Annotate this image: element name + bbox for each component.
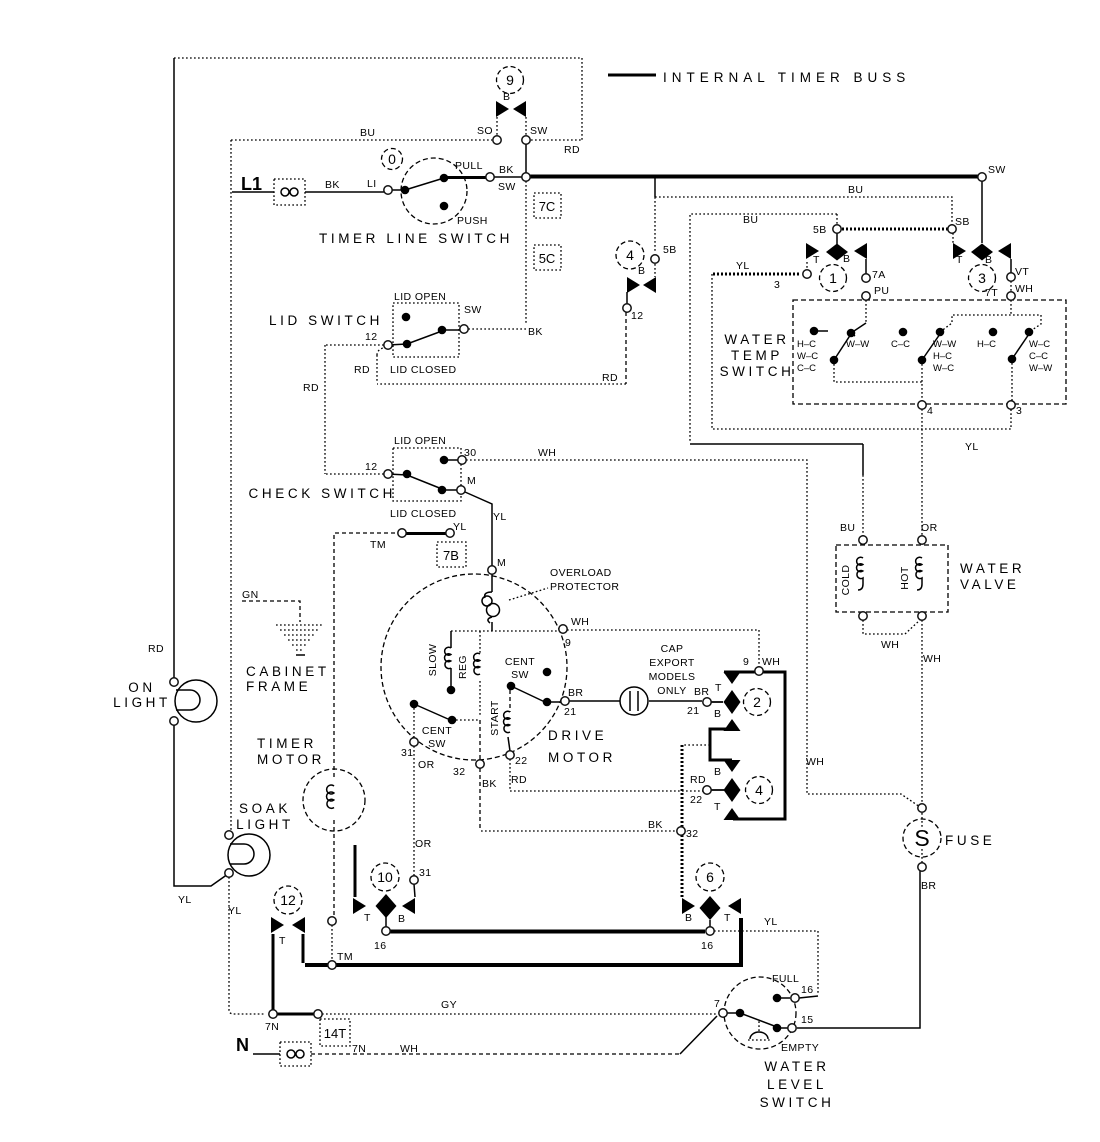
svg-text:21: 21: [687, 705, 699, 717]
svg-text:5C: 5C: [539, 251, 556, 266]
svg-text:SW: SW: [498, 181, 516, 193]
svg-text:YL: YL: [178, 894, 192, 906]
svg-text:BU: BU: [360, 127, 375, 139]
svg-text:LID SWITCH: LID SWITCH: [269, 313, 383, 328]
svg-text:WATER: WATER: [764, 1059, 829, 1074]
svg-text:CHECK SWITCH: CHECK SWITCH: [249, 486, 396, 501]
svg-text:3: 3: [978, 270, 986, 286]
svg-text:BK: BK: [482, 778, 497, 790]
svg-text:B: B: [685, 912, 692, 924]
svg-text:FULL: FULL: [772, 973, 799, 985]
svg-text:7C: 7C: [539, 199, 556, 214]
svg-text:PULL: PULL: [455, 160, 483, 172]
svg-text:YL: YL: [764, 916, 778, 928]
svg-text:SW: SW: [530, 125, 548, 137]
svg-text:12: 12: [365, 331, 377, 343]
svg-text:RD: RD: [511, 774, 527, 786]
svg-text:YL: YL: [228, 905, 242, 917]
svg-text:BR: BR: [568, 687, 583, 699]
svg-text:WH: WH: [571, 616, 589, 628]
svg-text:BK: BK: [325, 179, 340, 191]
svg-text:YL: YL: [453, 521, 467, 533]
svg-text:0: 0: [388, 151, 396, 167]
svg-text:BK: BK: [648, 819, 663, 831]
svg-text:15: 15: [801, 1014, 813, 1026]
svg-text:BU: BU: [840, 522, 855, 534]
svg-text:BU: BU: [848, 184, 863, 196]
svg-text:RD: RD: [148, 643, 164, 655]
svg-text:22: 22: [690, 794, 702, 806]
svg-text:SW: SW: [428, 738, 446, 750]
svg-text:14T: 14T: [324, 1026, 346, 1041]
svg-text:T: T: [724, 912, 731, 924]
svg-text:W–W: W–W: [1029, 363, 1052, 374]
svg-text:RD: RD: [602, 372, 618, 384]
svg-text:OR: OR: [415, 838, 432, 850]
svg-text:BK: BK: [499, 164, 514, 176]
svg-text:RD: RD: [564, 144, 580, 156]
svg-text:W–W: W–W: [933, 339, 956, 350]
svg-text:EMPTY: EMPTY: [781, 1042, 819, 1054]
svg-text:21: 21: [564, 706, 576, 718]
svg-text:VALVE: VALVE: [960, 577, 1020, 592]
svg-text:5B: 5B: [813, 224, 827, 236]
svg-text:C–C: C–C: [891, 339, 910, 350]
svg-text:EXPORT: EXPORT: [649, 657, 695, 669]
svg-text:5B: 5B: [663, 244, 677, 256]
svg-text:7T: 7T: [985, 287, 998, 299]
svg-text:7B: 7B: [443, 548, 459, 563]
svg-text:SW: SW: [988, 164, 1006, 176]
svg-text:32: 32: [686, 828, 698, 840]
svg-text:31: 31: [401, 747, 413, 759]
svg-text:16: 16: [701, 940, 713, 952]
svg-text:YL: YL: [965, 441, 979, 453]
svg-text:W–W: W–W: [846, 339, 869, 350]
svg-text:12: 12: [631, 310, 643, 322]
svg-text:L1: L1: [241, 174, 262, 194]
svg-text:TIMER LINE SWITCH: TIMER LINE SWITCH: [319, 231, 513, 246]
svg-text:OR: OR: [921, 522, 938, 534]
svg-text:DRIVE: DRIVE: [548, 728, 607, 743]
svg-text:OVERLOAD: OVERLOAD: [550, 567, 612, 579]
svg-text:9: 9: [565, 637, 571, 649]
svg-text:RD: RD: [690, 774, 706, 786]
svg-text:9: 9: [743, 656, 749, 668]
svg-text:FUSE: FUSE: [945, 833, 995, 848]
svg-text:CABINET: CABINET: [246, 664, 330, 679]
svg-text:LIGHT: LIGHT: [236, 817, 294, 832]
svg-text:SB: SB: [955, 216, 970, 228]
svg-text:START: START: [489, 700, 501, 736]
svg-text:MODELS: MODELS: [649, 671, 696, 683]
svg-text:OR: OR: [418, 759, 435, 771]
svg-text:GN: GN: [242, 589, 259, 601]
svg-text:LID CLOSED: LID CLOSED: [390, 508, 456, 520]
svg-text:WATER: WATER: [960, 561, 1025, 576]
svg-text:B: B: [843, 253, 850, 265]
svg-text:LID CLOSED: LID CLOSED: [390, 364, 456, 376]
svg-text:SO: SO: [477, 125, 493, 137]
svg-text:6: 6: [706, 869, 714, 885]
svg-text:WH: WH: [400, 1043, 418, 1055]
svg-text:HOT: HOT: [899, 566, 911, 590]
svg-text:TIMER: TIMER: [257, 736, 317, 751]
svg-text:WH: WH: [881, 639, 899, 651]
svg-text:S: S: [914, 825, 929, 851]
svg-text:C–C: C–C: [797, 363, 816, 374]
svg-text:SWITCH: SWITCH: [760, 1095, 835, 1110]
svg-text:T: T: [956, 254, 963, 266]
svg-text:M: M: [467, 475, 476, 487]
svg-text:W–C: W–C: [797, 351, 818, 362]
svg-text:PROTECTOR: PROTECTOR: [550, 581, 619, 593]
svg-text:T: T: [364, 912, 371, 924]
svg-text:YL: YL: [493, 511, 507, 523]
svg-text:SOAK: SOAK: [239, 801, 291, 816]
svg-text:B: B: [714, 708, 721, 720]
svg-text:T: T: [279, 935, 286, 947]
svg-text:30: 30: [464, 447, 476, 459]
svg-text:LID OPEN: LID OPEN: [394, 291, 446, 303]
svg-text:1: 1: [829, 270, 837, 286]
svg-text:H–C: H–C: [933, 351, 952, 362]
svg-text:MOTOR: MOTOR: [257, 752, 325, 767]
svg-text:PU: PU: [874, 285, 889, 297]
svg-text:MOTOR: MOTOR: [548, 750, 616, 765]
svg-text:BR: BR: [921, 880, 936, 892]
svg-text:W–C: W–C: [1029, 339, 1050, 350]
svg-text:M: M: [497, 557, 506, 569]
svg-text:BK: BK: [528, 326, 543, 338]
svg-text:SW: SW: [464, 304, 482, 316]
svg-text:N: N: [236, 1035, 249, 1055]
svg-text:COLD: COLD: [840, 565, 852, 596]
svg-text:B: B: [398, 913, 405, 925]
svg-text:WH: WH: [1015, 283, 1033, 295]
svg-text:TM: TM: [370, 539, 386, 551]
svg-text:LIGHT: LIGHT: [113, 695, 171, 710]
svg-text:7N: 7N: [352, 1043, 366, 1055]
svg-text:SWITCH: SWITCH: [720, 364, 795, 379]
svg-text:H–C: H–C: [797, 339, 816, 350]
svg-text:TEMP: TEMP: [731, 348, 783, 363]
svg-text:BU: BU: [743, 214, 758, 226]
svg-text:T: T: [714, 801, 721, 813]
svg-text:4: 4: [755, 782, 763, 798]
svg-text:SW: SW: [511, 669, 529, 681]
svg-text:12: 12: [280, 892, 296, 908]
svg-text:BR: BR: [694, 686, 709, 698]
svg-text:PUSH: PUSH: [457, 215, 488, 227]
svg-text:RD: RD: [303, 382, 319, 394]
svg-text:ONLY: ONLY: [657, 685, 686, 697]
svg-text:7: 7: [714, 998, 720, 1010]
svg-text:T: T: [715, 682, 722, 694]
svg-text:REG: REG: [457, 655, 469, 679]
svg-text:WH: WH: [923, 653, 941, 665]
svg-text:INTERNAL TIMER BUSS: INTERNAL TIMER BUSS: [663, 70, 910, 85]
svg-text:ON: ON: [128, 680, 155, 695]
svg-text:CENT: CENT: [422, 725, 452, 737]
svg-text:10: 10: [377, 869, 393, 885]
svg-text:LEVEL: LEVEL: [767, 1077, 827, 1092]
svg-text:TM: TM: [337, 951, 353, 963]
svg-text:RD: RD: [354, 364, 370, 376]
svg-text:3: 3: [774, 279, 780, 291]
svg-text:SLOW: SLOW: [427, 644, 439, 677]
svg-text:9: 9: [506, 72, 514, 88]
svg-text:CAP: CAP: [661, 643, 684, 655]
svg-text:H–C: H–C: [977, 339, 996, 350]
svg-text:16: 16: [801, 984, 813, 996]
svg-text:VT: VT: [1015, 266, 1029, 278]
svg-text:31: 31: [419, 867, 431, 879]
svg-text:B: B: [985, 254, 992, 266]
svg-text:B: B: [503, 91, 510, 103]
svg-text:WH: WH: [538, 447, 556, 459]
svg-text:C–C: C–C: [1029, 351, 1048, 362]
svg-text:W–C: W–C: [933, 363, 954, 374]
svg-text:T: T: [813, 254, 820, 266]
svg-text:CENT: CENT: [505, 656, 535, 668]
svg-text:GY: GY: [441, 999, 457, 1011]
svg-text:4: 4: [626, 247, 634, 263]
svg-text:B: B: [638, 265, 645, 277]
svg-text:LI: LI: [367, 178, 377, 190]
svg-text:WATER: WATER: [724, 332, 789, 347]
svg-text:FRAME: FRAME: [246, 679, 311, 694]
svg-text:22: 22: [515, 755, 527, 767]
svg-text:YL: YL: [736, 260, 750, 272]
svg-text:16: 16: [374, 940, 386, 952]
svg-text:3: 3: [1016, 405, 1022, 417]
svg-text:7A: 7A: [872, 269, 886, 281]
svg-text:WH: WH: [806, 756, 824, 768]
svg-text:LID OPEN: LID OPEN: [394, 435, 446, 447]
svg-text:7N: 7N: [265, 1021, 279, 1033]
svg-text:WH: WH: [762, 656, 780, 668]
svg-text:12: 12: [365, 461, 377, 473]
svg-text:2: 2: [753, 694, 761, 710]
svg-text:4: 4: [927, 405, 933, 417]
svg-text:B: B: [714, 766, 721, 778]
svg-text:32: 32: [453, 766, 465, 778]
